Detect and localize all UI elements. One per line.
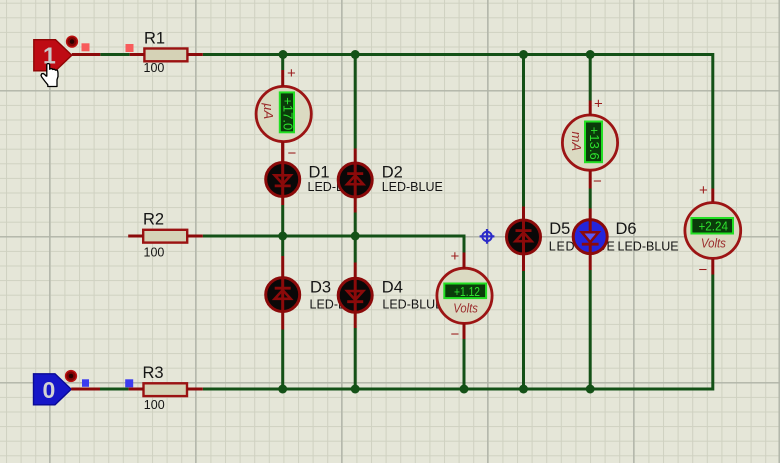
- resistor R1: [144, 30, 188, 76]
- svg-text:−: −: [451, 326, 460, 343]
- svg-text:−: −: [699, 262, 708, 279]
- resistor R3: [143, 364, 188, 412]
- svg-text:LED-BLUE: LED-BLUE: [618, 240, 679, 254]
- logic1 toggle button: [67, 36, 78, 47]
- origin marker crosshair: [480, 229, 495, 244]
- svg-text:−: −: [593, 173, 602, 190]
- svg-text:100: 100: [144, 398, 165, 412]
- logic0 pin state squares: [82, 379, 133, 387]
- svg-text:100: 100: [144, 246, 165, 260]
- svg-text:+: +: [594, 96, 603, 113]
- svg-text:LED-BLUE: LED-BLUE: [382, 298, 443, 312]
- svg-text:Volts: Volts: [453, 301, 478, 315]
- pin R3 leads: [129, 388, 203, 391]
- svg-text:D1: D1: [309, 164, 330, 182]
- pin voltmeter V1 leads: [463, 253, 466, 340]
- svg-text:D5: D5: [549, 220, 570, 238]
- svg-text:100: 100: [144, 61, 165, 75]
- svg-text:mA: mA: [569, 132, 584, 152]
- voltmeter V2 +2.24: [685, 182, 741, 279]
- wire branch A segments: [281, 55, 284, 390]
- LED D2: [338, 149, 443, 213]
- pin R1 leads: [130, 53, 203, 56]
- resistor R2: [143, 211, 187, 260]
- svg-text:+1.12: +1.12: [454, 284, 480, 299]
- pin R2 leads: [128, 235, 203, 238]
- pin logic0: [71, 388, 100, 391]
- wire logic1 to R1: [100, 53, 129, 56]
- svg-text:0: 0: [43, 377, 56, 403]
- svg-text:D3: D3: [310, 279, 331, 297]
- pin ammeter mA leads: [589, 101, 592, 189]
- wire top rail: [203, 55, 713, 189]
- svg-text:D2: D2: [382, 164, 403, 182]
- svg-text:+13.6: +13.6: [587, 127, 602, 160]
- svg-text:+: +: [699, 182, 708, 199]
- svg-text:R3: R3: [143, 364, 164, 382]
- wire branch B segments: [354, 55, 357, 390]
- wire middle rail from R2: [203, 236, 464, 253]
- LED D6: [573, 209, 678, 271]
- logic state input 1: [34, 40, 72, 71]
- svg-text:µA: µA: [261, 103, 276, 119]
- svg-text:R1: R1: [144, 30, 165, 48]
- ammeter uA: [256, 65, 311, 162]
- LED D1: [266, 142, 345, 206]
- wire branch C segments: [522, 55, 525, 390]
- svg-text:−: −: [288, 145, 297, 162]
- svg-text:LED-BLUE: LED-BLUE: [382, 180, 443, 194]
- svg-text:D4: D4: [382, 279, 403, 297]
- svg-text:D6: D6: [616, 220, 637, 238]
- svg-text:+17.0: +17.0: [280, 97, 295, 130]
- wire voltmeter V1 branch: [463, 339, 466, 389]
- wire logic0 to R3: [100, 388, 129, 391]
- LED D5: [507, 207, 615, 272]
- ammeter mA: [562, 96, 617, 191]
- pin ammeter uA leads: [281, 70, 284, 163]
- mouse cursor: [41, 64, 58, 87]
- LED D3: [266, 256, 347, 330]
- voltmeter V1 +1.12: [437, 248, 492, 343]
- svg-text:Volts: Volts: [701, 237, 726, 251]
- svg-text:R2: R2: [143, 211, 164, 229]
- pin voltmeter V2 leads: [711, 189, 714, 275]
- LED D4: [338, 263, 443, 329]
- node junction bottom rail: [278, 385, 595, 394]
- wire branch D segments: [589, 55, 592, 390]
- logic state input 0: [34, 374, 72, 405]
- node junction top rail: [279, 50, 595, 59]
- svg-text:+: +: [287, 65, 296, 82]
- pin logic1: [72, 53, 101, 56]
- svg-text:+: +: [451, 248, 460, 265]
- logic0 toggle button: [66, 371, 77, 382]
- logic1 pin state squares: [82, 43, 134, 52]
- svg-text:+2.24: +2.24: [699, 219, 729, 234]
- node junction middle rail: [278, 232, 360, 241]
- wire bottom rail: [203, 275, 713, 390]
